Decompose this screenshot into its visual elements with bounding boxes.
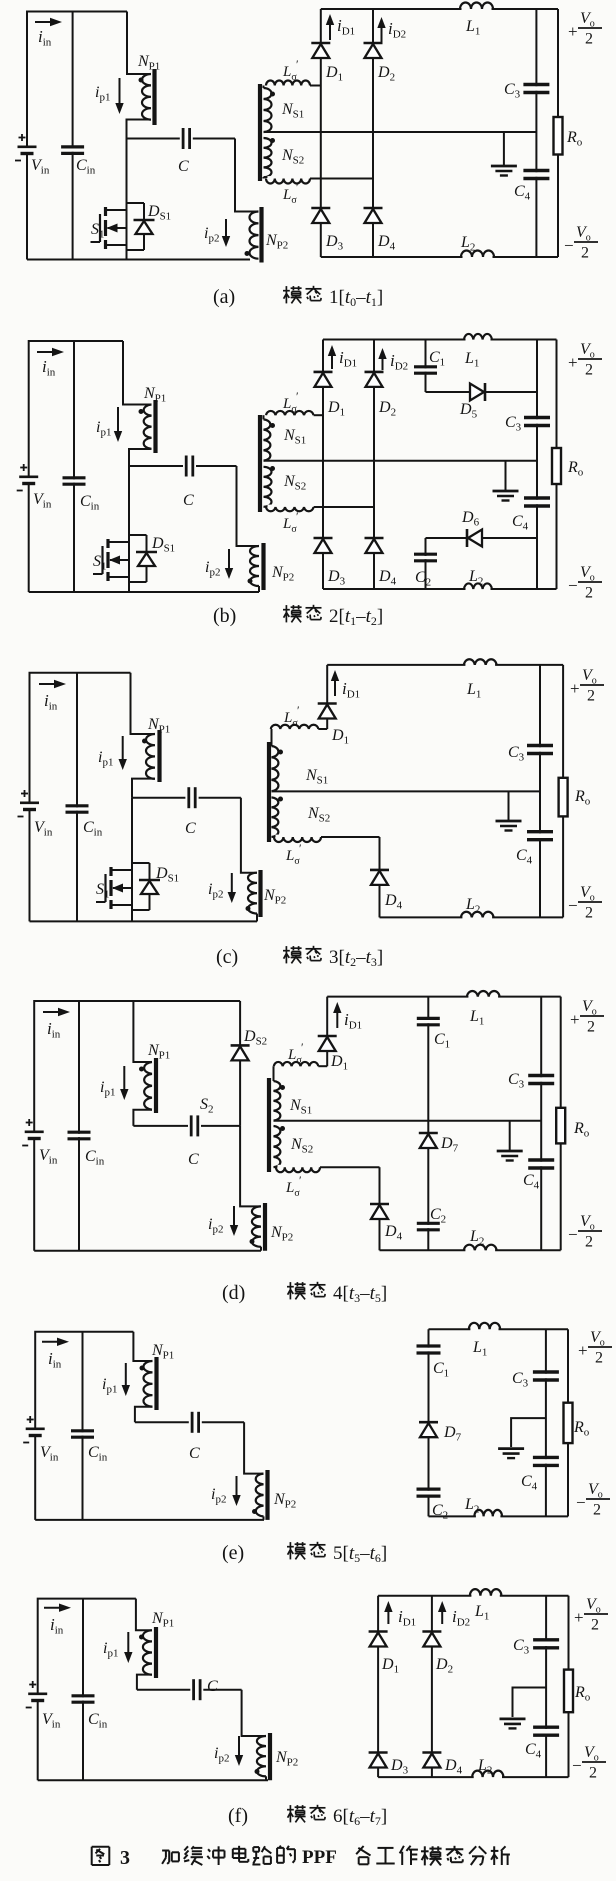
svg-text:+: +: [578, 1341, 588, 1360]
svg-text:′: ′: [296, 180, 299, 194]
svg-text:′: ′: [297, 703, 300, 717]
svg-text:−: −: [568, 1225, 578, 1244]
svg-text:(a): (a): [213, 286, 235, 308]
svg-text:C: C: [178, 158, 189, 175]
svg-text:+: +: [568, 22, 578, 41]
svg-text:′: ′: [296, 509, 299, 523]
svg-text:−: −: [576, 1493, 586, 1512]
svg-text:PPF: PPF: [302, 1847, 337, 1868]
svg-text:+: +: [568, 353, 578, 372]
svg-text:+: +: [570, 1010, 580, 1029]
svg-text:2: 2: [595, 1350, 603, 1367]
svg-text:′: ′: [296, 57, 299, 71]
svg-text:2: 2: [585, 905, 593, 922]
svg-text:2: 2: [585, 1234, 593, 1251]
svg-text:−: −: [568, 896, 578, 915]
svg-text:C: C: [189, 1445, 200, 1462]
svg-text:2: 2: [585, 362, 593, 379]
svg-text:C: C: [207, 1678, 218, 1695]
svg-text:(e): (e): [222, 1542, 244, 1564]
svg-text:′: ′: [299, 841, 302, 855]
svg-text:C: C: [183, 492, 194, 509]
svg-text:+: +: [570, 679, 580, 698]
svg-text:C: C: [188, 1151, 199, 1168]
svg-text:2: 2: [591, 1617, 599, 1634]
svg-text:C: C: [185, 820, 196, 837]
svg-text:2: 2: [587, 688, 595, 705]
svg-text:−: −: [572, 1756, 582, 1775]
svg-text:(c): (c): [216, 946, 238, 968]
svg-text:2: 2: [589, 1765, 597, 1782]
svg-text:(d): (d): [222, 1282, 245, 1304]
svg-text:2: 2: [585, 31, 593, 48]
svg-text:−: −: [568, 576, 578, 595]
svg-text:2: 2: [581, 245, 589, 262]
svg-text:(f): (f): [228, 1805, 248, 1827]
svg-text:2: 2: [585, 585, 593, 602]
svg-text:2: 2: [593, 1502, 601, 1519]
svg-text:−: −: [564, 236, 574, 255]
svg-text:(b): (b): [213, 605, 236, 627]
svg-text:′: ′: [301, 1040, 304, 1054]
svg-text:′: ′: [296, 389, 299, 403]
svg-text:+: +: [574, 1608, 584, 1627]
svg-text:3: 3: [120, 1847, 130, 1869]
svg-text:2: 2: [587, 1019, 595, 1036]
svg-text:′: ′: [299, 1173, 302, 1187]
